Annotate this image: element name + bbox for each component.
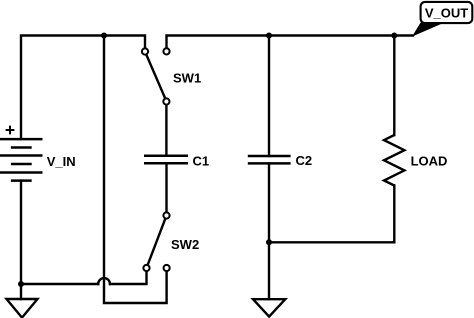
net flag V_OUT pointer [412,23,445,37]
wire SW2 throw D to ground rail (left part) [110,272,147,285]
wire junction column x=104 down to bottom rail to SW2 throw E [104,36,167,304]
wire V_OUT node to LOAD top [393,36,395,136]
wire V_IN- down to ground [20,181,22,299]
wire C2 top branch [268,36,270,157]
svg-text:C1: C1 [193,154,210,169]
node E: junction C2 / LOAD bottom [266,239,272,245]
node C: junction top wire / LOAD [391,33,397,39]
resistor LOAD [384,135,447,186]
ground (V_IN-) [7,299,38,318]
svg-text:SW2: SW2 [171,237,199,252]
wire V_IN+ to SW1 throw A [21,36,145,140]
battery V_IN [0,126,76,181]
svg-text:LOAD: LOAD [411,154,448,169]
node D: junction V_IN- / ground rail [18,281,24,287]
svg-text:V_IN: V_IN [47,154,76,169]
capacitor C2 [248,153,312,168]
capacitor C1 [144,154,209,169]
node B: junction top wire / C2 [266,33,272,39]
wire top-right net: SW1 throw B to V_OUT [167,36,414,49]
wire C2 bottom to ground [268,163,270,299]
wire ground rail to V_IN- node [21,283,98,285]
wire SW1 pole to C1 top [165,105,167,156]
wire C2 node to LOAD bottom [269,186,394,243]
svg-text:SW1: SW1 [173,70,201,85]
switch SW2 [143,212,199,271]
wire C1 bottom to SW2 pole [165,163,167,212]
svg-text:C2: C2 [296,153,313,168]
node A: junction top wire / x=104 column [101,33,107,39]
wire hop over x=104 column [98,278,110,284]
net flag V_OUT box [421,2,473,23]
ground (C2) [253,299,285,316]
switch SW1 [142,48,201,104]
svg-text:V_OUT: V_OUT [425,5,468,20]
